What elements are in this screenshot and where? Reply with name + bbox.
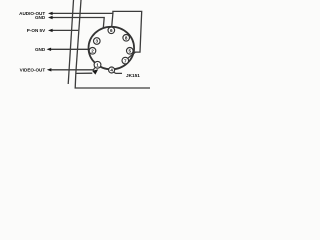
wire audio bridge loop to pin 5 [113,11,142,52]
pin 1 (bottom left) [94,61,101,68]
wire gnd2 horizontal to pin 2 [51,48,89,50]
svg-text:JK151: JK151 [126,73,140,78]
wire pin4 to JK151 leader [113,72,122,73]
pin 2 (left) [89,48,96,55]
pin 7 (bottom right) [122,57,129,64]
wire vertical A from top edge down to video line [68,0,73,84]
pin 4 (bottom) [109,67,115,73]
wire p-on 5v horizontal to vertical B [53,29,79,31]
wire vertical B from top edge down to bottom loop [76,0,81,73]
signal arrows (pointing left toward labels) [47,12,99,75]
wire pin7 diagonal to bridge [128,52,135,58]
svg-text:GND: GND [35,47,46,52]
arrow gnd1 [48,16,53,19]
svg-text:3: 3 [96,39,99,44]
pin 3 (upper left) [94,38,101,45]
svg-text:VIDEO-OUT: VIDEO-OUT [20,68,46,73]
svg-text:5: 5 [129,49,132,54]
wire audio-out horizontal [53,13,113,27]
svg-text:1: 1 [96,63,99,68]
pin 5 (right) [127,48,134,55]
svg-text:4: 4 [110,68,113,73]
pin 6 (top) [108,27,115,34]
wire bottom shield loop [75,73,150,88]
connector JK151 outer shell circle [89,27,135,70]
arrow p-on 5v [48,29,53,32]
arrow into pin 4 [92,69,98,74]
svg-text:GND: GND [35,15,46,20]
wire gnd1 horizontal to shell top [53,18,105,29]
svg-text:P-ON 5V: P-ON 5V [27,28,46,33]
svg-text:7: 7 [124,58,127,63]
arrow audio-out [48,12,53,15]
arrow video-out [47,68,52,71]
svg-text:8: 8 [125,36,128,41]
wire from B bottom to pin 4 [76,72,93,74]
pin 8 (top right) [123,35,130,42]
svg-text:6: 6 [110,28,113,33]
svg-text:2: 2 [91,49,94,54]
wire video-out horizontal to pin 1 [51,68,95,70]
arrow gnd2 [47,48,52,51]
pins: circles with numbers [89,27,133,73]
